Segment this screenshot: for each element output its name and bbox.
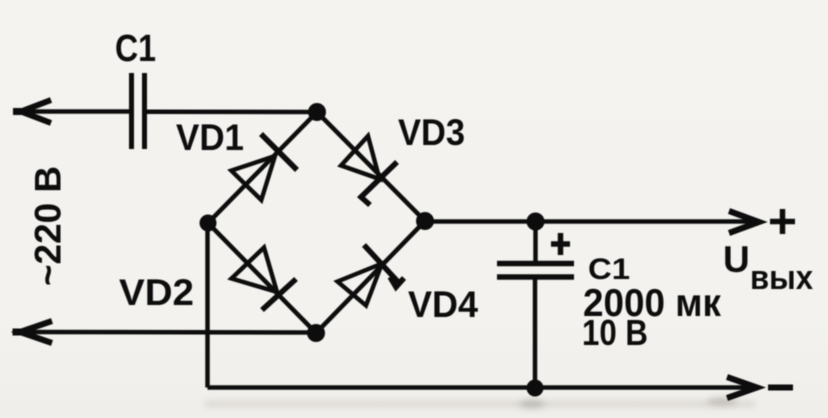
label Uвых — [723, 239, 813, 297]
wire: capacitor to bottom rail — [533, 279, 538, 388]
diode VD1 — [231, 134, 297, 200]
wire: bridge edge left-top (VD1 branch) — [208, 112, 317, 223]
svg-text:~220 В: ~220 В — [28, 166, 69, 286]
svg-text:VD2: VD2 — [119, 272, 194, 313]
terminal arrow: output + — [729, 211, 759, 233]
svg-text:10 В: 10 В — [582, 312, 648, 353]
node: bridge left (−) — [200, 215, 217, 232]
capacitor C1 (series input) — [132, 73, 145, 149]
node: bridge right (+) — [416, 212, 434, 230]
svg-text:U: U — [723, 239, 750, 280]
terminal arrow: output − — [727, 377, 757, 398]
wire: bridge edge bottom-right (VD4 branch) — [316, 221, 425, 333]
wire: left node down to bottom rail — [205, 223, 210, 388]
terminal arrow: AC input top — [21, 100, 51, 123]
wire: input bottom, arrow to bottom node — [19, 330, 316, 335]
node: bridge bottom (AC) — [307, 324, 325, 342]
wire: bottom rail (−) — [208, 385, 759, 390]
svg-text:VD3: VD3 — [398, 112, 465, 153]
wire: bridge edge top-right (VD3 branch) — [317, 112, 425, 221]
diode VD4 — [338, 245, 405, 306]
wire: junction down to capacitor plate — [533, 222, 538, 262]
wire: input top, arrow to capacitor — [20, 109, 130, 114]
wire: bridge edge left-bottom (VD2 branch) — [208, 223, 316, 333]
svg-text:VD4: VD4 — [408, 284, 478, 325]
svg-text:C1: C1 — [115, 28, 156, 70]
label + polarity mark of C1 — [551, 233, 570, 255]
wire: capacitor to top node — [147, 109, 318, 114]
diode VD2 — [232, 248, 297, 311]
capacitor C1 electrolytic 2000мк — [497, 264, 574, 278]
node: capacitor bottom junction — [527, 380, 544, 397]
svg-text:вых: вых — [750, 259, 813, 297]
label − (output polarity) — [768, 385, 793, 391]
wire: output + rail — [425, 219, 760, 224]
label + (output polarity) — [770, 209, 795, 234]
diode VD3 — [341, 136, 397, 205]
node: bridge top (AC) — [308, 103, 326, 121]
node: capacitor top junction — [527, 213, 545, 231]
terminal arrow: AC input bottom — [20, 321, 52, 343]
svg-text:VD1: VD1 — [176, 117, 244, 158]
